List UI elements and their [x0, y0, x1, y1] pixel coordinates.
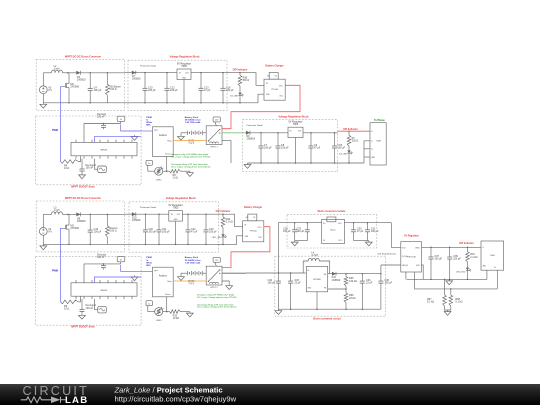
svg-text:O/P Indicator: O/P Indicator — [216, 210, 231, 213]
capacitor C36 — [380, 274, 382, 281]
svg-text:100 µF: 100 µF — [94, 231, 102, 234]
svg-text:OUT-: OUT- — [338, 240, 342, 242]
capacitor C16 — [222, 72, 224, 74]
wire regulator 2 gnd — [295, 138, 297, 163]
svg-text:100 µF: 100 µF — [434, 257, 442, 260]
svg-text:22 µF: 22 µF — [366, 281, 373, 284]
svg-text:D±: D± — [494, 267, 496, 269]
svg-text:USB: USB — [376, 141, 381, 143]
capacitor C31 — [367, 223, 369, 230]
dashed box PWM block — [36, 116, 142, 185]
svg-text:330 Ω: 330 Ω — [352, 140, 359, 143]
capacitor C20 — [145, 213, 147, 215]
svg-text:140 kΩ: 140 kΩ — [349, 280, 357, 283]
wire boost rail — [278, 308, 381, 310]
LED LED_IND 4 — [467, 262, 469, 268]
capacitor C33 — [290, 273, 292, 281]
svg-text:LED_IND: LED_IND — [212, 237, 222, 239]
wire blue pwm out upper — [121, 265, 141, 272]
svg-text:NO = Output: Charge phone from: NO = Output: Charge phone from batteries — [197, 306, 236, 309]
wire TPS gnd 2 — [415, 272, 498, 289]
wire buck out — [344, 222, 391, 224]
dashed box MPPT DC-DC Boost Converter — [36, 201, 124, 252]
svg-text:VBUS: VBUS — [415, 248, 419, 250]
svg-text:100 µF: 100 µF — [371, 230, 379, 233]
wire blue pwm out upper — [121, 125, 141, 132]
wire buck out caps gnd — [354, 240, 369, 242]
ground rail A — [448, 279, 450, 281]
wire bottom rail — [125, 243, 220, 245]
svg-text:5v: 5v — [120, 119, 122, 121]
wire — [125, 72, 132, 74]
svg-text:Voltage Regulation Block: Voltage Regulation Block — [166, 197, 197, 200]
photoresistor LDR — [155, 167, 163, 175]
svg-text:1N5819: 1N5819 — [132, 78, 141, 81]
wire to ground — [181, 311, 190, 313]
inductor L2 — [51, 70, 62, 73]
svg-text:MPL: MPL — [146, 265, 151, 267]
wire main to charger — [218, 214, 242, 227]
voltage source V3 — [39, 86, 47, 94]
wire input node — [246, 272, 303, 274]
svg-text:Sensor: Sensor — [165, 293, 171, 296]
op-amp Arduino — [153, 127, 174, 157]
svg-text:MPPT DC-DC Boost Converter: MPPT DC-DC Boost Converter — [65, 197, 101, 200]
node 5v flag — [117, 116, 125, 121]
resistor R9 10 — [61, 300, 79, 304]
op-amp TP5100 battery charger — [264, 79, 285, 100]
wire buck to regulator — [391, 223, 400, 248]
resistor R30 — [239, 73, 241, 76]
svg-text:TPS25730: TPS25730 — [406, 256, 416, 258]
svg-text:Arduino: Arduino — [159, 274, 168, 277]
wire — [125, 213, 132, 215]
wire bottom rail — [125, 102, 229, 104]
svg-text:100 µF: 100 µF — [281, 147, 289, 150]
wire bottom rail 2 — [248, 162, 365, 164]
svg-text:Relay: Relay — [167, 140, 171, 142]
wire gate drive (blue) — [60, 110, 62, 161]
svg-text:47 µF: 47 µF — [357, 230, 364, 233]
svg-text:1 mH: 1 mH — [54, 67, 60, 70]
svg-text:D5_IND: D5_IND — [230, 96, 238, 98]
svg-text:Boost converter circuit: Boost converter circuit — [313, 317, 341, 320]
svg-text:O/P Indicator: O/P Indicator — [459, 242, 474, 245]
wire pwm to arduino (blue) — [141, 130, 152, 132]
svg-text:NE555: NE555 — [101, 150, 108, 152]
resistor R34 — [222, 214, 224, 217]
diode D7 — [132, 71, 136, 75]
svg-text:100 µF: 100 µF — [148, 231, 156, 234]
svg-text:100 nF: 100 nF — [97, 256, 105, 259]
relay SPDT — [206, 126, 222, 145]
capacitor C37 — [430, 247, 432, 257]
wire coil return to rail — [222, 141, 231, 163]
op-amp MT3608 — [306, 266, 327, 291]
resistor R38 5.1k — [449, 295, 453, 306]
capacitor decoupling 100 nF — [103, 264, 105, 266]
wire divider join — [445, 306, 451, 310]
svg-text:IN_1V2: IN_1V2 — [402, 256, 407, 258]
resistor sensor divider — [170, 169, 181, 173]
wire — [43, 72, 51, 74]
svg-text:7.4V 1500 mAh: 7.4V 1500 mAh — [185, 121, 201, 124]
wire main — [134, 72, 177, 74]
wire buck module feed — [277, 223, 279, 273]
svg-text:330 Ω: 330 Ω — [243, 79, 250, 82]
diode D6 — [246, 131, 250, 135]
svg-text:NC = Input: Charge batteries f: NC = Input: Charge batteries from TP5100 — [197, 296, 237, 299]
dashed box Buck converter module — [287, 215, 377, 248]
node scope icon — [98, 166, 107, 173]
capacitor C7 — [260, 132, 262, 134]
wire switch common out — [222, 132, 246, 134]
op-amp Arduino — [153, 267, 174, 297]
svg-text:7.4 V: 7.4 V — [188, 283, 194, 286]
wire — [63, 213, 77, 215]
photoresistor LDR — [155, 308, 163, 316]
wire IC pin to scope — [94, 299, 97, 310]
svg-text:5V+: 5V+ — [246, 217, 249, 219]
svg-text:1N5819: 1N5819 — [77, 78, 86, 81]
wire coil return — [222, 281, 229, 284]
dashed box PWM block — [36, 256, 142, 325]
svg-text:LDR2: LDR2 — [156, 179, 162, 181]
svg-text:IN+: IN+ — [323, 223, 326, 225]
wire main out — [191, 72, 228, 74]
node 5v flag — [117, 257, 125, 262]
wire battery charger output (red) — [222, 85, 300, 128]
op-amp 7805 regulator — [177, 69, 191, 80]
svg-text:OUT: OUT — [185, 73, 189, 75]
svg-text:7805: 7805 — [173, 207, 179, 210]
wire IC bottom — [81, 299, 83, 309]
svg-text:100 µF: 100 µF — [170, 89, 178, 92]
svg-text:5V+: 5V+ — [267, 76, 270, 78]
svg-text:MPL: MPL — [146, 125, 151, 127]
ground — [42, 103, 44, 105]
ground battery — [180, 135, 182, 137]
LED D3_IND — [348, 146, 350, 150]
wire gate drive (blue) — [60, 251, 62, 302]
wire main 2 — [249, 132, 288, 134]
capacitor C29 — [306, 223, 308, 230]
svg-text:5V Regulator: 5V Regulator — [404, 235, 419, 238]
dashed box Voltage Regulation Block — [129, 202, 218, 252]
svg-text:7.4 V: 7.4 V — [188, 142, 194, 145]
svg-text:http://circuitlab.com/cp3w7qhe: http://circuitlab.com/cp3w7qhejuy9w — [115, 394, 237, 403]
wire rail — [218, 243, 223, 245]
wire rail A — [407, 278, 487, 280]
svg-text:100 µF: 100 µF — [268, 281, 276, 284]
capacitor C30 — [353, 223, 355, 230]
wire — [79, 72, 125, 74]
capacitor C4 — [89, 73, 91, 89]
svg-text:TP5100: TP5100 — [250, 231, 258, 233]
svg-text:D+: D+ — [371, 149, 373, 151]
capacitor C35 — [449, 247, 451, 257]
svg-text:100 nF: 100 nF — [97, 115, 105, 118]
svg-text:4IN3_IN: 4IN3_IN — [402, 265, 409, 267]
op-amp 7805 regulator — [169, 211, 183, 222]
capacitor C21 — [158, 213, 160, 215]
svg-text:Voltage Regulation Block: Voltage Regulation Block — [170, 56, 201, 59]
resistor R37 5.1k — [443, 295, 447, 306]
svg-text:100 µF: 100 µF — [338, 147, 346, 150]
svg-text:NC = Input: Charge batteries f: NC = Input: Charge batteries from TP5100 — [171, 156, 211, 159]
svg-text:10 Ω: 10 Ω — [64, 167, 69, 170]
svg-text:1N5819: 1N5819 — [246, 138, 255, 141]
capacitor C15 — [89, 214, 91, 230]
ground buck out — [368, 241, 370, 243]
svg-text:OUT+: OUT+ — [258, 227, 262, 229]
wire bottom rail — [43, 243, 124, 245]
op-amp USB jack 4 — [481, 241, 504, 270]
svg-text:O/P Indicator: O/P Indicator — [343, 128, 358, 131]
svg-text:MT3608: MT3608 — [313, 279, 321, 281]
svg-text:100 µF: 100 µF — [264, 147, 272, 150]
wire to ground — [181, 170, 190, 172]
dashed box Voltage Regulation Block 2 — [243, 120, 338, 172]
svg-text:Battery Charger: Battery Charger — [244, 206, 262, 209]
wire boost out — [335, 273, 381, 275]
svg-text:9 V: 9 V — [48, 231, 52, 234]
wire battery to switch — [203, 272, 207, 274]
capacitor C8 — [277, 132, 279, 134]
svg-text:OUT-: OUT- — [258, 237, 262, 239]
wire gate (blue) — [61, 228, 64, 252]
svg-text:PWM: PWM — [52, 269, 58, 272]
op-amp USB jack 2 — [370, 123, 386, 165]
svg-text:Protection Diode: Protection Diode — [246, 124, 263, 127]
wire battery charger output (red) — [223, 227, 270, 268]
svg-text:Protection Diode: Protection Diode — [140, 206, 157, 209]
wire battery to switch — [203, 132, 207, 134]
battery BAT 7.4 V — [187, 271, 189, 275]
svg-text:FB: FB — [324, 288, 326, 290]
svg-text:OUT: OUT — [177, 214, 181, 216]
ground IC pin — [134, 135, 136, 137]
wire reg input 2 — [381, 264, 401, 266]
wire buck caps gnd — [295, 240, 308, 242]
svg-text:10 Ω: 10 Ω — [64, 308, 69, 311]
svg-text:Input: Input — [154, 269, 158, 272]
svg-text:Battery Pack: Battery Pack — [185, 256, 199, 259]
wire MT3608 gnd — [316, 292, 318, 309]
resistor R35 140k — [345, 274, 347, 277]
svg-text:USB: USB — [490, 255, 495, 257]
svg-text:5v: 5v — [148, 163, 150, 165]
svg-text:2N7000: 2N7000 — [70, 85, 79, 88]
ground — [81, 173, 83, 175]
ground sensor — [189, 312, 191, 314]
op-amp Buck module IC — [322, 219, 345, 243]
capacitor C34 — [361, 274, 363, 281]
capacitor C12 — [166, 72, 168, 74]
battery BAT 7.4 V — [187, 131, 189, 135]
relay SPDT — [206, 266, 222, 285]
svg-text:47 µF: 47 µF — [314, 147, 321, 150]
svg-text:2.2 kΩ: 2.2 kΩ — [226, 221, 233, 224]
wire sensor node — [163, 170, 170, 172]
node scope icon — [98, 306, 107, 313]
dashed box Boost converter circuit — [275, 256, 386, 316]
ground IC pin — [134, 275, 136, 277]
svg-text:Battery Charger: Battery Charger — [266, 64, 284, 67]
svg-text:Voltage Regulation Block: Voltage Regulation Block — [279, 115, 310, 118]
svg-text:100 µF: 100 µF — [453, 257, 461, 260]
wire out to regulator — [380, 265, 382, 274]
node 5v flag ldr — [146, 160, 152, 165]
wire — [63, 72, 77, 74]
wire blue pwm out lower — [94, 277, 141, 283]
resistor R31 2.2k — [467, 247, 469, 251]
wire usb data pins — [364, 141, 370, 163]
op-amp TP5100 battery charger — [243, 221, 264, 242]
wire — [43, 213, 51, 215]
voltage source V4 — [39, 228, 47, 236]
capacitor C13 — [200, 72, 202, 74]
svg-text:2.2 kΩ: 2.2 kΩ — [470, 256, 477, 259]
wire SW node — [328, 273, 332, 275]
ground battery — [180, 275, 182, 277]
wire pwm to arduino (blue) — [141, 270, 152, 272]
wire usb gnd down — [486, 270, 488, 279]
svg-text:100 µF: 100 µF — [148, 89, 156, 92]
svg-text:SPDT 1: SPDT 1 — [210, 147, 218, 149]
diode D4 — [76, 71, 80, 75]
wire LED down 4 — [467, 270, 469, 279]
svg-text:5.00 Ω: 5.00 Ω — [109, 230, 116, 233]
svg-text:Protection Diode: Protection Diode — [140, 65, 157, 68]
capacitor decoupling 100 nF — [103, 124, 105, 126]
ground — [81, 314, 83, 316]
svg-text:NO = Output: Charge phone from: NO = Output: Charge phone from batteries — [171, 165, 210, 168]
svg-text:SPDT 2: SPDT 2 — [210, 287, 218, 289]
svg-text:Sensor: Sensor — [165, 153, 171, 156]
op-amp NE555 PWM IC — [71, 283, 137, 296]
ground divider — [447, 310, 449, 312]
svg-text:MPPT BOOST Solar: MPPT BOOST Solar — [71, 326, 95, 329]
svg-text:NE555: NE555 — [101, 290, 108, 292]
svg-text:Relay: Relay — [167, 281, 171, 283]
svg-text:5v: 5v — [148, 303, 150, 305]
node 12V flag — [213, 257, 220, 262]
svg-text:7805: 7805 — [293, 123, 299, 126]
resistor R9 10 — [61, 160, 79, 164]
svg-text:47 µF: 47 µF — [191, 231, 198, 234]
wire sensor node — [163, 311, 170, 313]
svg-text:100 µF: 100 µF — [94, 89, 102, 92]
capacitor C9 — [310, 132, 312, 134]
resistor R7 330 — [348, 131, 350, 135]
wire regulator ground — [183, 80, 185, 103]
wire main to charger — [227, 73, 264, 86]
svg-text:5.1 kΩ: 5.1 kΩ — [427, 300, 434, 303]
svg-text:1N5819: 1N5819 — [132, 219, 141, 222]
svg-text:22 µF: 22 µF — [294, 281, 301, 284]
diode D10 — [132, 212, 136, 216]
svg-text:18 kΩ: 18 kΩ — [349, 297, 356, 300]
wire usb data down — [496, 270, 498, 289]
svg-text:LED_IND: LED_IND — [456, 271, 466, 273]
svg-text:To Phone: To Phone — [374, 119, 385, 122]
svg-text:Zark_Loke / Project Schematic: Zark_Loke / Project Schematic — [114, 386, 223, 395]
op-amp TPS25730 regulator — [401, 242, 422, 272]
wire IC pin to scope — [94, 159, 97, 170]
capacitor C22 — [187, 213, 189, 215]
svg-text:9 V: 9 V — [48, 89, 52, 92]
svg-text:100 µF: 100 µF — [226, 89, 234, 92]
svg-text:1 mH: 1 mH — [54, 209, 60, 212]
ground coil — [228, 284, 230, 286]
svg-text:5+: 5+ — [371, 131, 373, 133]
node 12V flag — [213, 117, 220, 122]
diode D11 — [332, 272, 336, 276]
svg-text:OUT+: OUT+ — [338, 223, 342, 225]
op-amp 7805 regulator 2 — [288, 127, 303, 137]
ground boost in — [277, 309, 279, 311]
wire bottom rail — [43, 102, 124, 104]
wire IC top to 5v — [84, 264, 121, 280]
svg-text:7805: 7805 — [181, 65, 187, 68]
svg-text:OUT: OUT — [298, 131, 302, 133]
wire divider taps — [444, 279, 446, 295]
svg-text:OUT+: OUT+ — [279, 85, 283, 87]
svg-text:1 kΩ: 1 kΩ — [173, 177, 178, 180]
wire rail — [227, 102, 240, 104]
svg-text:MPPT BOOST Solar: MPPT BOOST Solar — [71, 185, 95, 188]
svg-text:100 nF: 100 nF — [86, 166, 94, 169]
svg-text:2N7000: 2N7000 — [70, 227, 79, 230]
wire IC top to 5v — [84, 124, 121, 140]
wire LED 2 down — [348, 153, 350, 163]
svg-text:4.7µH: 4.7µH — [311, 254, 318, 257]
resistor Rload2 — [106, 214, 108, 225]
transistor M3 — [64, 225, 66, 229]
wire gate (blue) — [61, 87, 64, 111]
wire FB tap — [328, 288, 346, 290]
resistor sensor divider — [170, 310, 181, 314]
wire TPS gnd 1 — [405, 272, 407, 279]
svg-text:100 nF: 100 nF — [86, 307, 94, 310]
resistor Rload — [106, 73, 108, 84]
svg-text:1N5819: 1N5819 — [77, 220, 86, 223]
svg-text:O/P Indicator: O/P Indicator — [233, 69, 248, 72]
resistor R36 18k — [345, 286, 347, 293]
wire blue pwm out lower — [94, 137, 141, 143]
svg-text:LAB: LAB — [65, 395, 88, 405]
ground rail 2 — [247, 163, 249, 165]
diode D8 — [76, 212, 80, 216]
svg-text:Arduino: Arduino — [159, 134, 168, 137]
capacitor C10 — [144, 72, 146, 74]
capacitor decoupling2 100 nF — [80, 308, 85, 310]
svg-text:TP5100: TP5100 — [271, 89, 279, 91]
svg-text:100 µF: 100 µF — [283, 230, 291, 233]
svg-text:100 µF: 100 µF — [297, 230, 305, 233]
dashed box Voltage Regulation Block — [128, 60, 227, 110]
svg-text:D3_IND: D3_IND — [339, 153, 347, 155]
svg-text:Buck converter module: Buck converter module — [318, 210, 346, 213]
svg-text:1N5819: 1N5819 — [332, 279, 341, 282]
svg-text:100 µF: 100 µF — [162, 231, 170, 234]
LED LED5 — [222, 228, 224, 235]
svg-text:Battery Pack: Battery Pack — [185, 116, 199, 119]
wire regulator ground — [175, 221, 177, 244]
svg-text:47 µF: 47 µF — [204, 89, 211, 92]
svg-text:5.00 Ω: 5.00 Ω — [109, 88, 116, 91]
